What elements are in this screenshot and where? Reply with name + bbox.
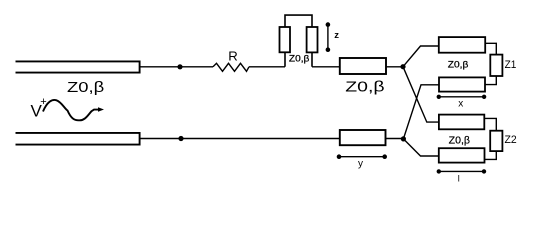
svg-text:Z0,β: Z0,β [289,54,310,64]
svg-text:y: y [358,159,363,170]
svg-text:Z0,β: Z0,β [448,59,469,69]
svg-text:Z2: Z2 [505,134,517,146]
svg-text:Z0,β: Z0,β [345,79,385,96]
svg-text:Z0,β: Z0,β [67,79,105,96]
svg-text:Z0,β: Z0,β [449,135,471,146]
svg-text:z: z [334,30,339,41]
svg-text:Z1: Z1 [505,59,517,71]
svg-text:R: R [228,48,238,63]
svg-text:x: x [458,99,463,110]
svg-text:l: l [458,174,460,184]
